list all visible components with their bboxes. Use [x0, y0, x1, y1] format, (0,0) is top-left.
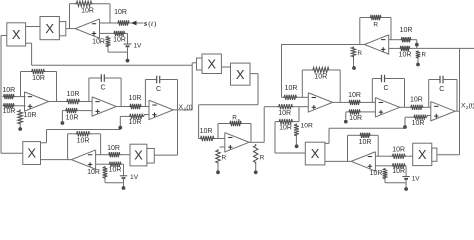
svg-text:C: C [383, 85, 388, 92]
svg-text:C: C [156, 86, 161, 93]
svg-text:X: X [27, 146, 36, 161]
svg-text:X: X [45, 21, 54, 36]
svg-text:10R: 10R [66, 114, 79, 121]
svg-text:10R: 10R [410, 96, 423, 103]
svg-text:10R: 10R [412, 120, 425, 127]
svg-text:10R: 10R [67, 91, 80, 98]
svg-text:10R: 10R [107, 145, 120, 152]
svg-text:10R: 10R [359, 139, 372, 146]
svg-text:s: s [143, 19, 147, 28]
svg-text:10R: 10R [129, 119, 142, 126]
svg-text:C: C [439, 86, 444, 93]
svg-text:C: C [100, 85, 105, 92]
svg-text:10R: 10R [114, 9, 127, 16]
svg-text:X: X [207, 56, 216, 71]
svg-text:10R: 10R [392, 168, 405, 175]
svg-text:(t): (t) [186, 104, 192, 111]
svg-text:10R: 10R [3, 108, 16, 115]
svg-text:R: R [422, 52, 427, 59]
svg-text:10R: 10R [2, 87, 15, 94]
svg-text:1V: 1V [412, 176, 421, 183]
svg-text:10R: 10R [285, 85, 298, 92]
svg-text:X: X [12, 27, 21, 42]
svg-text:10R: 10R [279, 125, 292, 132]
svg-text:10R: 10R [301, 123, 313, 130]
svg-text:R: R [232, 115, 237, 122]
svg-text:10R: 10R [348, 92, 361, 99]
svg-text:10R: 10R [399, 51, 412, 58]
svg-text:10R: 10R [278, 110, 291, 117]
svg-text:1V: 1V [130, 174, 139, 181]
svg-text:X: X [311, 146, 320, 161]
svg-text:10R: 10R [24, 112, 37, 119]
svg-text:R: R [373, 21, 378, 28]
svg-text:10R: 10R [392, 146, 405, 153]
svg-text:X: X [134, 148, 143, 163]
svg-text:X: X [418, 147, 427, 162]
svg-text:10R: 10R [314, 73, 327, 80]
svg-text:10R: 10R [77, 138, 90, 145]
svg-text:1V: 1V [134, 43, 143, 50]
svg-text:(t): (t) [469, 102, 474, 109]
svg-text:R: R [358, 50, 363, 57]
svg-text:R: R [260, 155, 265, 162]
svg-text:10R: 10R [81, 8, 94, 15]
svg-text:10R: 10R [370, 170, 383, 177]
svg-text:10R: 10R [400, 27, 413, 34]
svg-text:10R: 10R [113, 37, 126, 44]
svg-text:X: X [236, 67, 245, 82]
svg-text:10R: 10R [32, 75, 45, 82]
svg-text:10R: 10R [87, 169, 100, 176]
svg-text:10R: 10R [200, 128, 213, 135]
svg-text:R: R [222, 155, 227, 162]
svg-text:10R: 10R [129, 95, 142, 102]
svg-text:10R: 10R [349, 115, 362, 122]
svg-text:10R: 10R [109, 167, 122, 174]
svg-text:10R: 10R [92, 39, 105, 46]
